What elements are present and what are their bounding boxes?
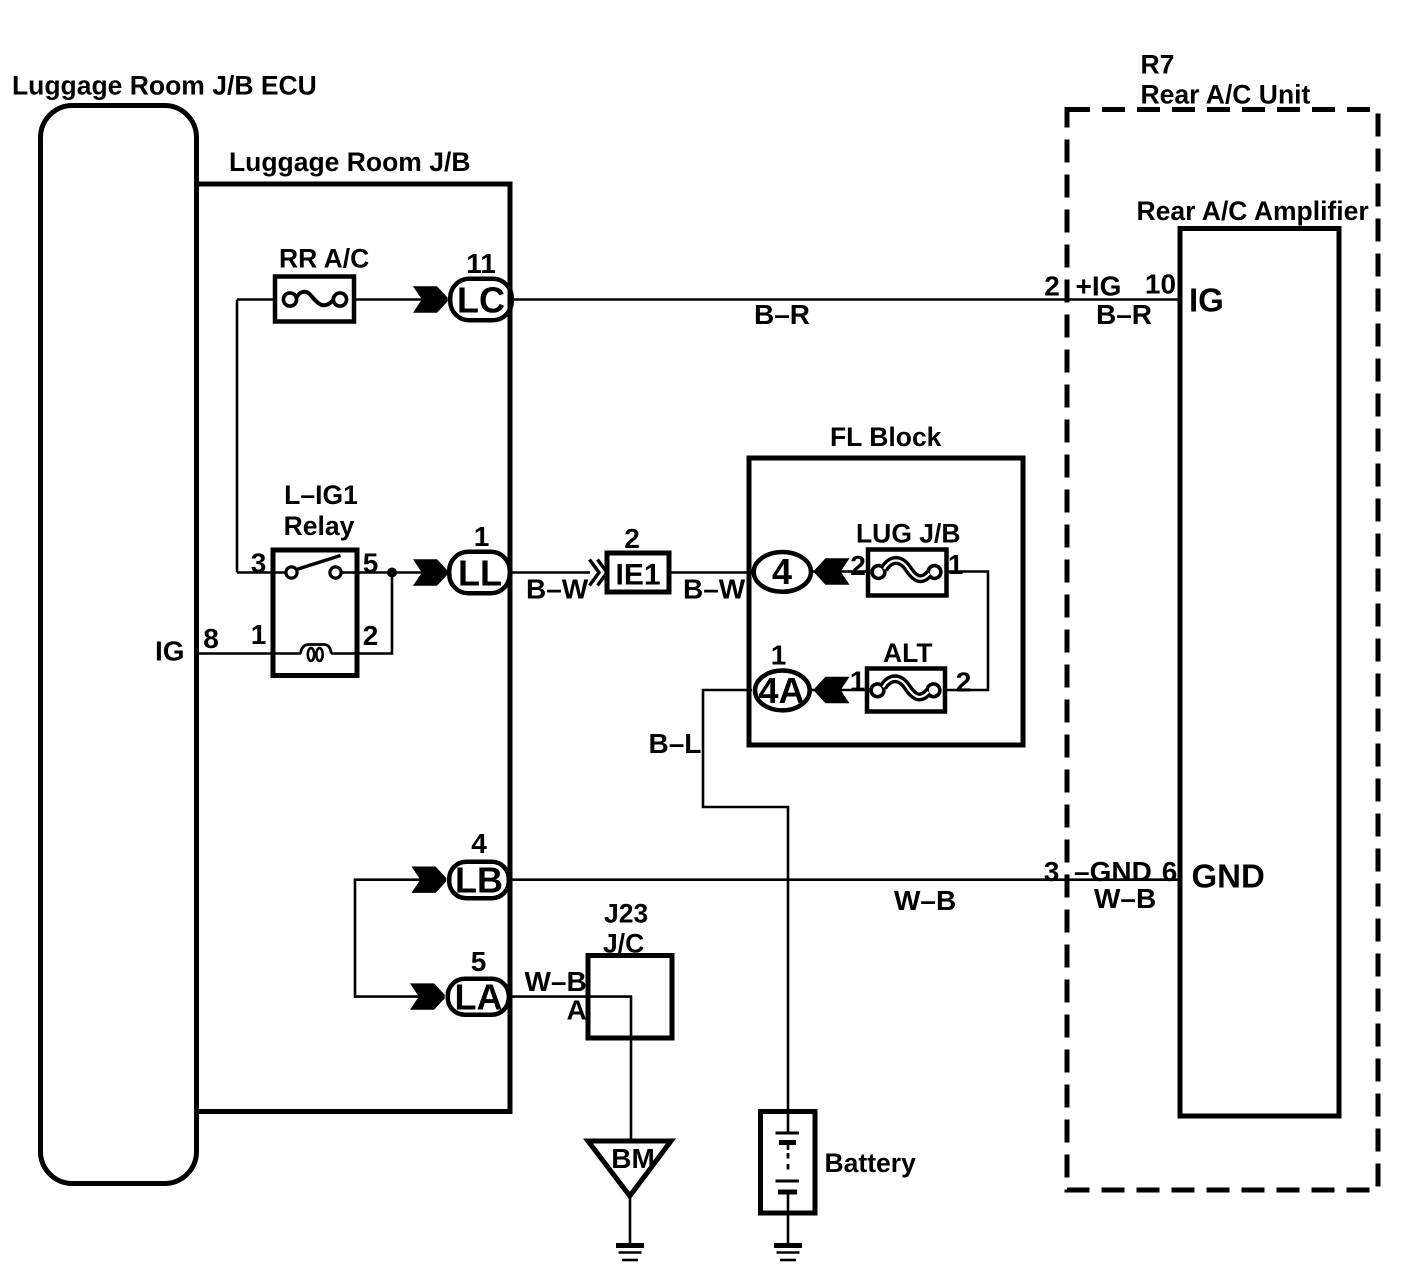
svg-text:LA: LA <box>455 977 503 1018</box>
svg-text:1: 1 <box>771 640 787 671</box>
svg-text:4A: 4A <box>758 670 804 711</box>
svg-text:Battery: Battery <box>825 1148 917 1178</box>
connector IE1 <box>607 553 669 592</box>
svg-text:1: 1 <box>850 666 866 697</box>
svg-text:RR A/C: RR A/C <box>279 244 369 274</box>
relay coil bump <box>301 645 332 654</box>
svg-text:IE1: IE1 <box>615 559 660 592</box>
svg-text:Rear A/C Unit: Rear A/C Unit <box>1141 80 1311 110</box>
wire junction to relay coil pin 2 <box>357 573 392 654</box>
wire fuse feed left <box>237 298 275 301</box>
svg-text:Luggage Room J/B: Luggage Room J/B <box>229 147 470 177</box>
svg-text:3: 3 <box>1044 856 1060 887</box>
wire BM to ground <box>629 1196 632 1244</box>
fusible link LUG J/B <box>868 550 947 596</box>
svg-text:ALT: ALT <box>883 638 933 668</box>
svg-text:Rear A/C Amplifier: Rear A/C Amplifier <box>1137 196 1369 226</box>
svg-text:B–W: B–W <box>526 574 589 605</box>
svg-text:B–R: B–R <box>1096 299 1152 330</box>
svg-text:1: 1 <box>948 549 964 580</box>
svg-text:4: 4 <box>772 551 792 592</box>
wire riser to relay pin 3 <box>236 300 239 573</box>
wire LC to amplifier B-R <box>512 298 1180 301</box>
svg-text:10: 10 <box>1145 269 1176 300</box>
svg-text:4: 4 <box>471 828 487 859</box>
connector arrow LC <box>413 286 448 312</box>
connector LA <box>448 979 509 1015</box>
fusible link ALT <box>867 669 945 712</box>
junction block Luggage Room J/B <box>197 184 511 1112</box>
svg-text:11: 11 <box>466 248 496 279</box>
svg-text:2: 2 <box>363 620 379 651</box>
wire 4A to battery B-L <box>703 690 788 1111</box>
svg-text:1: 1 <box>474 521 490 552</box>
connector arrow into 4 <box>815 558 850 584</box>
wire LL to IE1 B-W <box>510 571 590 574</box>
FL Block box <box>749 458 1023 745</box>
svg-text:8: 8 <box>203 623 219 654</box>
ground triangle BM <box>588 1141 671 1196</box>
connector LC <box>450 279 512 321</box>
junction dot <box>387 568 397 578</box>
svg-text:LL: LL <box>458 553 502 594</box>
svg-text:R7: R7 <box>1141 50 1175 80</box>
svg-text:3: 3 <box>251 548 267 579</box>
wire LUG J/B pin1 to ALT pin2 <box>945 572 988 691</box>
svg-text:2: 2 <box>956 667 972 698</box>
svg-text:GND: GND <box>1192 858 1265 895</box>
connector 4A <box>755 671 810 711</box>
svg-text:5: 5 <box>471 946 487 977</box>
svg-text:2: 2 <box>850 550 866 581</box>
Rear A/C Amplifier box <box>1180 229 1339 1117</box>
fuse RR A/C <box>275 277 354 322</box>
connector arrow LL <box>413 559 448 585</box>
connector arrow LA <box>410 983 445 1009</box>
wire relay pin 3 <box>237 571 291 574</box>
svg-text:J23: J23 <box>604 899 648 929</box>
svg-text:IG: IG <box>1189 282 1224 319</box>
svg-text:6: 6 <box>1162 856 1178 887</box>
svg-text:LC: LC <box>457 280 505 321</box>
svg-text:1: 1 <box>251 619 267 650</box>
chevron splice <box>590 560 600 586</box>
ground <box>616 1246 644 1261</box>
svg-text:+IG: +IG <box>1076 271 1122 302</box>
wire LB branch <box>355 880 421 997</box>
wire relay pin 5 to LL arrow <box>341 571 423 574</box>
svg-text:LB: LB <box>455 860 503 901</box>
svg-text:W–B: W–B <box>1094 883 1156 914</box>
relay contact left <box>286 567 297 578</box>
svg-text:IG: IG <box>155 636 185 667</box>
svg-text:BM: BM <box>611 1143 655 1174</box>
svg-text:L–IG1: L–IG1 <box>284 480 358 510</box>
connector LB <box>449 862 509 899</box>
connector 4 <box>754 552 811 592</box>
svg-text:FL Block: FL Block <box>830 422 942 452</box>
wire IG to relay coil pin 1 <box>197 652 274 655</box>
svg-text:Luggage Room J/B ECU: Luggage Room J/B ECU <box>12 71 317 101</box>
connector arrow into 4A <box>815 677 850 703</box>
relay coil loops <box>308 648 314 661</box>
wire arrow to ALT fuse <box>840 689 868 692</box>
svg-text:5: 5 <box>363 548 379 579</box>
svg-text:B–R: B–R <box>754 299 810 330</box>
wire fuse to LC arrow <box>354 298 423 301</box>
ECU block Luggage Room J/B ECU <box>41 106 197 1184</box>
junction connector J23 J/C box <box>588 956 672 1039</box>
relay switch blade <box>297 556 341 570</box>
wire LA to J23 W-B <box>511 995 590 998</box>
svg-text:LUG J/B: LUG J/B <box>856 519 961 549</box>
svg-text:W–B: W–B <box>525 966 587 997</box>
wire arrow to LUG fuse <box>840 570 869 573</box>
svg-text:W–B: W–B <box>894 885 956 916</box>
wire inside J23 down to BM <box>590 997 631 1141</box>
svg-text:Relay: Relay <box>284 511 355 541</box>
svg-text:B–W: B–W <box>683 574 746 605</box>
ground <box>774 1246 802 1261</box>
connector arrow LB <box>412 867 447 893</box>
wire LB to amplifier W-B <box>511 878 1180 881</box>
connector LL <box>449 552 510 594</box>
dashed box R7 Rear A/C Unit <box>1067 110 1378 1191</box>
relay coil wire <box>273 652 301 655</box>
svg-text:2: 2 <box>1044 271 1060 302</box>
wire battery to ground <box>787 1213 790 1244</box>
relay contact right <box>330 567 341 578</box>
wire IE1 to FL block B-W <box>669 571 754 574</box>
svg-text:B–L: B–L <box>649 728 702 759</box>
svg-text:2: 2 <box>624 523 640 554</box>
battery <box>761 1111 816 1213</box>
svg-text:A: A <box>567 995 587 1026</box>
relay L-IG1 box <box>273 550 357 676</box>
